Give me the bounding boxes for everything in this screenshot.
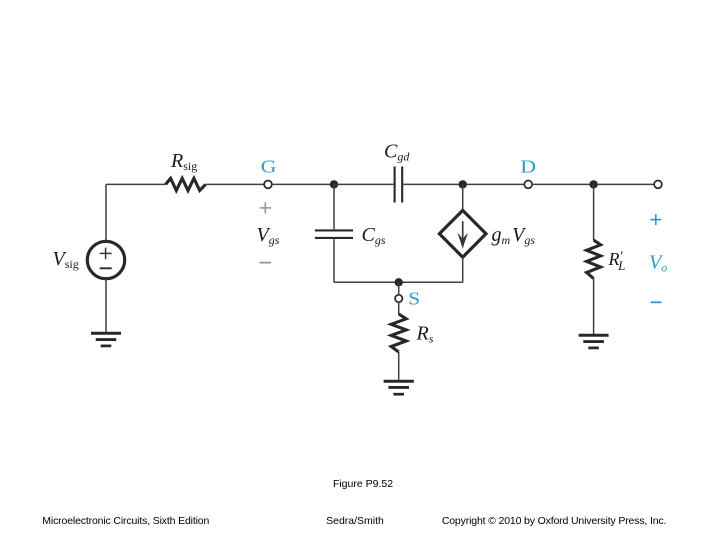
junction dot at R'L top xyxy=(589,180,597,188)
svg-text:Sedra/Smith: Sedra/Smith xyxy=(326,515,384,527)
capacitor C_gd xyxy=(395,167,403,203)
wire Cgs down to S wire xyxy=(333,239,335,282)
svg-text:Figure P9.52: Figure P9.52 xyxy=(333,478,393,490)
wire Rsig to node G xyxy=(206,183,264,185)
svg-text:G: G xyxy=(261,157,277,177)
ground below Vsig xyxy=(91,333,121,346)
gray minus below V_gs xyxy=(259,262,271,264)
voltage source V_sig circle xyxy=(87,241,124,278)
arrow inside dependent source xyxy=(457,221,468,249)
ground below Rs xyxy=(384,381,414,394)
wire dependent source to S wire xyxy=(462,257,464,283)
wire node S to Rs xyxy=(398,302,400,314)
resistor R_s xyxy=(391,314,406,352)
wire Vsig top vertical xyxy=(105,184,107,241)
svg-text:S: S xyxy=(408,289,420,309)
junction dot at Cgs top xyxy=(330,180,338,188)
resistor R_sig xyxy=(166,178,206,190)
svg-text:Copyright © 2010 by Oxford Uni: Copyright © 2010 by Oxford University Pr… xyxy=(442,515,666,527)
node S open circle xyxy=(395,295,402,302)
svg-text:D: D xyxy=(520,157,536,177)
wire top-left horizontal from Vsig to Rsig xyxy=(106,183,166,185)
wire junction1 to Cgd left plate xyxy=(334,183,393,185)
capacitor C_gs xyxy=(315,230,353,238)
junction dot at S xyxy=(395,278,403,286)
wire junction2 down to dependent source xyxy=(462,184,464,211)
ground below R'L xyxy=(579,335,609,348)
wire Rs to ground xyxy=(398,352,400,380)
wire node D to right terminal xyxy=(532,183,655,185)
node G open circle xyxy=(264,181,272,189)
wire Cgd right plate to node D xyxy=(403,183,523,185)
cyan minus for Vo xyxy=(651,301,662,303)
plus sign inside source xyxy=(100,248,112,260)
junction dot at dependent source top xyxy=(459,180,467,188)
right output terminal open circle xyxy=(654,181,662,189)
dependent current source g_m V_gs diamond xyxy=(439,210,486,257)
wire R'L to ground xyxy=(593,279,595,334)
wire Vsig bottom vertical xyxy=(105,279,107,332)
wire junction3 down to R'L xyxy=(593,184,595,240)
svg-text:Microelectronic Circuits, Sixt: Microelectronic Circuits, Sixth Edition xyxy=(42,515,209,527)
stub wire to node S xyxy=(398,282,400,295)
wire junction1 down to Cgs xyxy=(333,184,335,229)
minus sign inside source xyxy=(100,267,112,269)
bottom S wire horizontal xyxy=(334,281,463,283)
node D open circle xyxy=(524,181,532,189)
resistor R'_L xyxy=(587,240,601,279)
gray plus above V_gs xyxy=(260,202,271,213)
cyan plus for Vo xyxy=(650,214,661,225)
wire node G to junction 1 xyxy=(272,183,334,185)
